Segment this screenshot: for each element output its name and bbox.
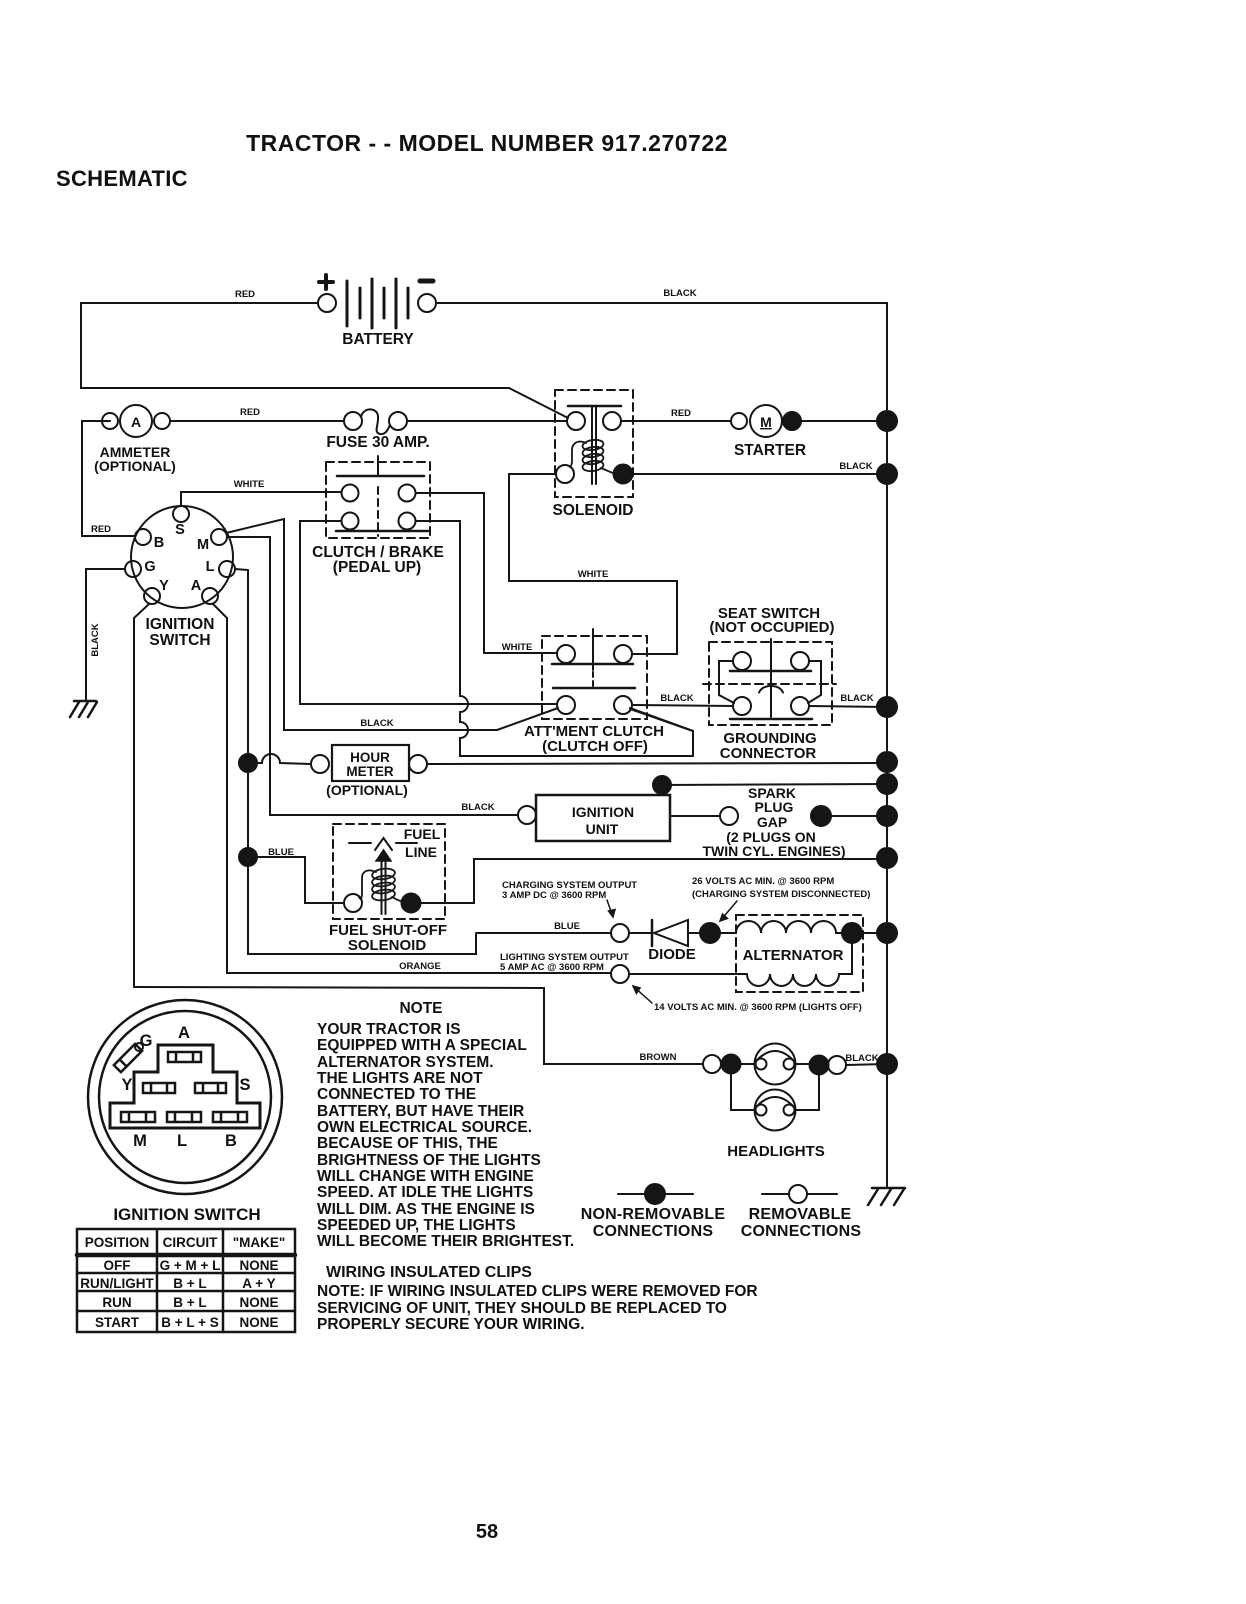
svg-text:IGNITION: IGNITION — [146, 616, 215, 633]
svg-text:BLACK: BLACK — [360, 718, 393, 729]
svg-text:BLACK: BLACK — [90, 623, 101, 656]
wire clutch lower-right with hops to banner — [416, 521, 693, 756]
svg-text:L: L — [177, 1132, 187, 1150]
ignition switch connector inner circle — [99, 1011, 271, 1183]
ignition switch terminal A — [202, 588, 218, 604]
svg-text:START: START — [95, 1315, 140, 1330]
fuse left terminal circle — [344, 412, 362, 430]
svg-text:WHITE: WHITE — [578, 569, 609, 580]
attm clutch dashed box — [542, 636, 647, 719]
hour meter box — [332, 745, 409, 781]
svg-text:EQUIPPED WITH A SPECIAL: EQUIPPED WITH A SPECIAL — [317, 1037, 527, 1054]
solenoid upper-left contact — [567, 412, 585, 430]
arrow charging label to circle — [607, 900, 615, 917]
solenoid coil right lead — [601, 468, 613, 473]
headlight lamp 2 branch wires — [731, 1074, 755, 1110]
ground symbol right — [868, 1188, 905, 1205]
junction dot rail solenoid — [877, 464, 897, 484]
spark plug gap left circle — [720, 807, 738, 825]
wire A terminal trunk orange — [213, 604, 611, 973]
clutch/brake lower-left contact — [342, 513, 359, 530]
svg-text:(CLUTCH OFF): (CLUTCH OFF) — [542, 738, 648, 755]
hour meter right terminal circle — [409, 755, 427, 773]
ignition unit box — [536, 795, 670, 841]
wire to lamp1 — [740, 1063, 755, 1065]
solenoid plunger double line — [591, 406, 593, 484]
svg-text:ALTERNATOR SYSTEM.: ALTERNATOR SYSTEM. — [317, 1054, 494, 1071]
label SPARK PLUG GAP (2 PLUGS ON TWIN CYL. ENGINES) — [702, 785, 845, 859]
svg-text:SOLENOID: SOLENOID — [348, 937, 427, 954]
svg-text:RED: RED — [91, 524, 111, 535]
ignition switch terminal S — [173, 506, 189, 522]
wire Y terminal trunk — [134, 604, 149, 987]
svg-text:NOTE: IF WIRING INSULATED CLIP: NOTE: IF WIRING INSULATED CLIPS WERE REM… — [317, 1283, 758, 1300]
svg-text:SWITCH: SWITCH — [149, 632, 210, 649]
wire starter to rail — [801, 420, 887, 422]
fuel solenoid left terminal circle — [344, 894, 362, 912]
wire S terminal white to clutch — [181, 492, 341, 506]
svg-text:WILL CHANGE WITH ENGINE: WILL CHANGE WITH ENGINE — [317, 1168, 534, 1185]
svg-text:UNIT: UNIT — [586, 821, 619, 837]
wire diode to alternator dot — [688, 932, 700, 934]
solenoid lower-left contact — [556, 465, 574, 483]
alternator dashed box — [736, 915, 863, 992]
seat switch lower-left contact — [733, 697, 751, 715]
wire blue to charging circle — [476, 932, 611, 934]
attm clutch lower bar — [553, 687, 635, 690]
junction dot rail alternator — [877, 923, 897, 943]
ignition switch terminal M — [211, 529, 227, 545]
svg-text:ALTERNATOR: ALTERNATOR — [743, 947, 844, 964]
wire headlight feed brown — [134, 987, 703, 1064]
wire clutch upper-right white down to attm clutch — [416, 493, 557, 653]
svg-text:RED: RED — [235, 289, 255, 300]
svg-text:BLACK: BLACK — [663, 288, 696, 299]
ammeter left terminal circle — [102, 413, 118, 429]
svg-text:A + Y: A + Y — [242, 1276, 275, 1291]
svg-text:THE LIGHTS ARE NOT: THE LIGHTS ARE NOT — [317, 1070, 483, 1087]
svg-text:WIRING INSULATED CLIPS: WIRING INSULATED CLIPS — [326, 1264, 532, 1281]
fuel solenoid right junction dot — [402, 894, 421, 913]
svg-text:HEADLIGHTS: HEADLIGHTS — [727, 1143, 825, 1160]
ammeter right terminal circle — [154, 413, 170, 429]
svg-text:TWIN CYL. ENGINES): TWIN CYL. ENGINES) — [702, 843, 845, 859]
table row OFF — [104, 1258, 279, 1273]
wire clutch lower-left loop to attm lower-left — [300, 521, 557, 704]
solenoid dashed box — [555, 390, 633, 497]
svg-text:BRIGHTNESS OF THE LIGHTS: BRIGHTNESS OF THE LIGHTS — [317, 1152, 541, 1169]
junction dot hour meter feed — [239, 754, 257, 772]
battery negative terminal circle — [418, 294, 436, 312]
spark plug gap right dot — [811, 806, 831, 826]
arrow 26 volts label to diode dot — [720, 901, 737, 921]
svg-text:BLACK: BLACK — [845, 1053, 878, 1064]
wire attm lower-right to seat switch — [632, 705, 733, 706]
svg-text:(CHARGING SYSTEM DISCONNECTED): (CHARGING SYSTEM DISCONNECTED) — [692, 889, 870, 900]
ignition switch terminal B — [135, 529, 151, 545]
svg-text:G + M + L: G + M + L — [160, 1258, 221, 1273]
junction dot rail starter — [877, 411, 897, 431]
connector pin letters — [121, 1024, 250, 1150]
legend removable connection — [762, 1185, 837, 1203]
wire ammeter to fuse — [170, 420, 344, 422]
svg-text:FUSE 30 AMP.: FUSE 30 AMP. — [326, 434, 429, 451]
svg-text:SOLENOID: SOLENOID — [553, 502, 634, 519]
seat switch right bracket wire — [808, 661, 821, 703]
right rail vertical wire — [886, 303, 888, 1188]
fuel solenoid coil right lead — [392, 897, 403, 902]
svg-text:BATTERY, BUT HAVE THEIR: BATTERY, BUT HAVE THEIR — [317, 1103, 524, 1120]
junction dot rail spark — [877, 806, 897, 826]
svg-text:NOTE: NOTE — [399, 1000, 442, 1017]
attm clutch upper contact bar — [552, 663, 633, 666]
svg-text:NONE: NONE — [239, 1315, 278, 1330]
ignition switch terminal L — [219, 561, 235, 577]
wire charging circle to diode — [629, 932, 652, 934]
svg-text:B: B — [225, 1132, 237, 1150]
ignition unit left terminal circle — [518, 806, 536, 824]
junction dot rail ignition top — [877, 774, 897, 794]
ignition switch terminal Y — [144, 588, 160, 604]
ammeter loop wire — [82, 421, 135, 536]
battery plus sign — [319, 275, 333, 289]
ignition switch terminal G — [125, 561, 141, 577]
svg-text:BLACK: BLACK — [660, 693, 693, 704]
svg-text:NON-REMOVABLE: NON-REMOVABLE — [581, 1206, 726, 1223]
svg-text:WILL BECOME THEIR BRIGHTEST.: WILL BECOME THEIR BRIGHTEST. — [317, 1233, 574, 1250]
seat switch upper-left contact — [733, 652, 751, 670]
attm clutch upper-right contact — [614, 645, 632, 663]
junction dot rail hour meter — [877, 752, 897, 772]
svg-text:SPEED. AT IDLE THE LIGHTS: SPEED. AT IDLE THE LIGHTS — [317, 1184, 533, 1201]
junction dot rail headlight — [877, 1054, 897, 1074]
wire spark plug to rail — [831, 815, 887, 817]
fuel line chevron arrow — [375, 838, 392, 850]
svg-text:WILL DIM. AS THE ENGINE IS: WILL DIM. AS THE ENGINE IS — [317, 1201, 535, 1218]
attm clutch actuator line — [592, 629, 594, 670]
svg-text:IGNITION: IGNITION — [572, 804, 634, 820]
headlight left removable circle — [703, 1055, 721, 1073]
table header POSITION CIRCUIT MAKE — [85, 1235, 286, 1250]
svg-text:58: 58 — [476, 1521, 498, 1543]
svg-text:BLUE: BLUE — [554, 921, 580, 932]
svg-text:LINE: LINE — [405, 844, 437, 860]
svg-text:B: B — [154, 535, 164, 551]
svg-text:(OPTIONAL): (OPTIONAL) — [326, 782, 408, 798]
svg-text:M: M — [133, 1132, 147, 1150]
solenoid lower-right junction dot — [614, 465, 633, 484]
wire B terminal red (joins ammeter loop) — [82, 535, 135, 537]
svg-text:FUEL: FUEL — [404, 826, 441, 842]
wire battery positive to left rail — [81, 303, 509, 388]
clutch/brake top bar — [337, 475, 424, 478]
svg-text:DIODE: DIODE — [648, 946, 696, 963]
headlight left junction dot — [722, 1055, 741, 1074]
fuel solenoid dashed box — [333, 824, 445, 919]
svg-text:RUN: RUN — [102, 1295, 131, 1310]
svg-text:BROWN: BROWN — [640, 1052, 677, 1063]
seat switch ground arc — [759, 686, 783, 693]
svg-text:SERVICING OF UNIT, THEY SHOULD: SERVICING OF UNIT, THEY SHOULD BE REPLAC… — [317, 1300, 727, 1317]
svg-text:PLUG: PLUG — [755, 799, 794, 815]
clutch/brake upper-left contact — [342, 485, 359, 502]
attm clutch upper-left contact — [557, 645, 575, 663]
svg-text:A: A — [131, 414, 141, 430]
svg-text:(NOT OCCUPIED): (NOT OCCUPIED) — [710, 619, 835, 636]
svg-text:STARTER: STARTER — [734, 442, 806, 459]
connector G pin slanted — [114, 1044, 142, 1072]
connector slot A — [168, 1052, 201, 1062]
svg-text:S: S — [239, 1076, 250, 1094]
fuel valve arrow head — [376, 850, 391, 861]
lighting output circle — [611, 965, 629, 983]
svg-text:26 VOLTS AC MIN. @ 3600 RPM: 26 VOLTS AC MIN. @ 3600 RPM — [692, 876, 834, 887]
svg-text:OWN ELECTRICAL SOURCE.: OWN ELECTRICAL SOURCE. — [317, 1119, 532, 1136]
wire lamp1 to right dot — [794, 1063, 809, 1065]
table row RUN/LIGHT — [80, 1276, 275, 1291]
svg-text:HOUR: HOUR — [350, 750, 390, 765]
wire diagonal up to attm clutch lower-left contact — [497, 708, 558, 730]
seat switch dashed box — [709, 642, 832, 725]
seat switch lower contact bar — [730, 718, 812, 721]
fuel valve stem double line — [381, 861, 383, 914]
wire alternator to rail — [862, 932, 887, 934]
svg-text:REMOVABLE: REMOVABLE — [749, 1206, 852, 1223]
wire G terminal to ground — [86, 569, 125, 701]
wire solenoid to starter — [621, 420, 731, 422]
ground symbol left — [70, 701, 97, 717]
diode D1 — [652, 920, 688, 946]
svg-text:M: M — [197, 537, 209, 553]
svg-text:GAP: GAP — [757, 814, 787, 830]
wire hour meter feed with hop — [248, 754, 311, 764]
ammeter meter circle A — [120, 405, 152, 437]
svg-text:(OPTIONAL): (OPTIONAL) — [94, 458, 176, 474]
svg-text:A: A — [178, 1024, 190, 1042]
svg-text:Y: Y — [121, 1076, 132, 1094]
attm clutch lower-right contact — [614, 696, 632, 714]
legend non-removable connection — [618, 1184, 693, 1204]
junction dot blue fuel feed — [239, 848, 257, 866]
connector slot S — [195, 1083, 226, 1093]
headlight right removable circle — [828, 1056, 846, 1074]
svg-text:G: G — [140, 1032, 153, 1050]
svg-text:RUN/LIGHT: RUN/LIGHT — [80, 1276, 154, 1291]
hour meter left terminal circle — [311, 755, 329, 773]
arrow 14 volts label to lighting circle — [633, 986, 652, 1003]
wire L terminal down — [235, 569, 476, 954]
svg-text:WHITE: WHITE — [502, 642, 533, 653]
wire solenoid lower-left down to white line — [509, 474, 677, 654]
wire ignition unit top to rail — [662, 784, 887, 795]
connector slot L — [167, 1112, 201, 1122]
svg-text:OFF: OFF — [104, 1258, 131, 1273]
junction dot diode output — [700, 923, 720, 943]
svg-text:5 AMP AC @ 3600 RPM: 5 AMP AC @ 3600 RPM — [500, 962, 604, 973]
wire hour meter to rail — [427, 763, 887, 764]
ignition switch pin letters — [144, 522, 214, 594]
seat switch actuator line — [770, 639, 772, 717]
wire seat switch to rail black — [809, 706, 887, 707]
connector stepped housing outline — [110, 1045, 260, 1128]
attm clutch actuator dashed segment — [592, 672, 594, 687]
connector slot B — [213, 1112, 247, 1122]
fuel solenoid coil — [371, 867, 395, 901]
svg-text:WHITE: WHITE — [234, 479, 265, 490]
alternator bottom winding — [629, 943, 852, 986]
connector slot Y — [143, 1083, 175, 1093]
clutch/brake dashed box — [326, 462, 430, 538]
starter right junction dot — [783, 412, 801, 430]
solenoid coil — [582, 439, 604, 473]
junction dot ignition unit top — [653, 776, 671, 794]
junction dot rail fuel — [877, 848, 897, 868]
seat switch dashed divider — [703, 683, 836, 685]
svg-text:METER: METER — [346, 764, 394, 779]
connector slot M — [121, 1112, 155, 1122]
wire battery negative to right rail — [436, 302, 887, 304]
ignition switch connector outer circle — [88, 1000, 282, 1194]
svg-text:CONNECTOR: CONNECTOR — [720, 745, 817, 762]
wire solenoid black to rail — [632, 473, 887, 475]
svg-text:3 AMP DC @ 3600 RPM: 3 AMP DC @ 3600 RPM — [502, 890, 606, 901]
svg-text:L: L — [206, 559, 215, 575]
seat switch upper-right contact — [791, 652, 809, 670]
ignition switch body circle — [131, 506, 233, 608]
svg-text:NONE: NONE — [239, 1295, 278, 1310]
fuse element squiggle — [361, 409, 390, 434]
svg-text:A: A — [191, 578, 202, 594]
wire diagonal into solenoid upper-left contact — [509, 388, 568, 418]
svg-text:B + L + S: B + L + S — [161, 1315, 219, 1330]
svg-text:POSITION: POSITION — [85, 1235, 150, 1250]
headlight right junction dot — [810, 1056, 829, 1075]
svg-text:CONNECTIONS: CONNECTIONS — [593, 1223, 714, 1240]
clutch/brake lower contact bar — [336, 530, 428, 533]
clutch/brake actuator tick — [377, 456, 379, 476]
wire M terminal diagonal to black attm line — [226, 519, 497, 730]
wire ignition unit to spark plug gap — [670, 815, 720, 817]
headlight lamp 2 — [755, 1090, 796, 1131]
solenoid T bar — [568, 405, 621, 408]
svg-text:Y: Y — [159, 578, 169, 594]
wire blue feed to fuel solenoid — [257, 857, 344, 903]
svg-text:CONNECTIONS: CONNECTIONS — [741, 1223, 862, 1240]
svg-text:BLACK: BLACK — [839, 461, 872, 472]
solenoid coil left lead — [570, 442, 586, 467]
solenoid upper-right contact — [603, 412, 621, 430]
alternator top winding — [720, 921, 843, 933]
starter motor circle M — [750, 405, 782, 437]
svg-text:RED: RED — [671, 408, 691, 419]
svg-text:YOUR TRACTOR IS: YOUR TRACTOR IS — [317, 1021, 461, 1038]
attm clutch lower-left contact — [557, 696, 575, 714]
connector G pin circle — [135, 1043, 143, 1051]
fuel solenoid coil left lead — [359, 870, 376, 898]
label LIGHTING SYSTEM OUTPUT 5 AMP AC — [500, 952, 629, 973]
svg-text:RED: RED — [240, 407, 260, 418]
fuse right terminal circle — [389, 412, 407, 430]
seat switch lower-right contact — [791, 697, 809, 715]
seat switch left bracket wire — [719, 661, 734, 703]
svg-text:IGNITION SWITCH: IGNITION SWITCH — [113, 1205, 260, 1224]
wire headlight to rail — [846, 1064, 887, 1065]
svg-text:BLACK: BLACK — [840, 693, 873, 704]
junction dot alternator right — [842, 923, 862, 943]
svg-text:PROPERLY SECURE YOUR WIRING.: PROPERLY SECURE YOUR WIRING. — [317, 1316, 585, 1333]
svg-text:BATTERY: BATTERY — [342, 331, 414, 348]
svg-text:M: M — [760, 414, 772, 430]
wire fuel solenoid loop to rail — [420, 859, 887, 903]
svg-text:S: S — [175, 522, 185, 538]
svg-text:14 VOLTS AC MIN. @ 3600 RPM (: 14 VOLTS AC MIN. @ 3600 RPM (LIGHTS OFF) — [654, 1002, 862, 1013]
svg-text:G: G — [144, 559, 155, 575]
clutch/brake lower-right contact — [399, 513, 416, 530]
svg-text:BECAUSE OF THIS, THE: BECAUSE OF THIS, THE — [317, 1135, 498, 1152]
clutch/brake center divider dashed — [377, 487, 379, 536]
battery minus sign — [420, 279, 433, 284]
label 26 VOLTS AC MIN (CHARGING SYSTEM DISCONNECTED) — [692, 876, 870, 900]
svg-text:B + L: B + L — [173, 1276, 206, 1291]
table row START — [95, 1315, 279, 1330]
wire fuse to solenoid — [407, 420, 567, 422]
svg-text:TRACTOR - - MODEL NUMBER 917.2: TRACTOR - - MODEL NUMBER 917.270722 — [246, 130, 728, 156]
svg-text:(PEDAL UP): (PEDAL UP) — [333, 559, 421, 576]
fuel line horizontal — [349, 842, 371, 844]
wire attm lower-right diagonal to banner — [630, 709, 693, 731]
junction dot rail seat — [877, 697, 897, 717]
battery positive terminal circle — [318, 294, 336, 312]
svg-text:NONE: NONE — [239, 1258, 278, 1273]
headlight lamp 1 — [755, 1044, 796, 1085]
note text block — [317, 1000, 574, 1250]
seat switch upper contact bar — [730, 670, 811, 673]
table row RUN — [102, 1295, 278, 1310]
svg-text:B + L: B + L — [173, 1295, 206, 1310]
note wiring insulated clips paragraph — [317, 1283, 758, 1333]
svg-text:ORANGE: ORANGE — [399, 961, 441, 972]
label CHARGING SYSTEM OUTPUT 3 AMP DC — [502, 880, 637, 901]
svg-text:"MAKE": "MAKE" — [233, 1235, 286, 1250]
svg-text:CIRCUIT: CIRCUIT — [163, 1235, 218, 1250]
battery plates — [347, 279, 408, 328]
svg-text:SCHEMATIC: SCHEMATIC — [56, 166, 188, 191]
svg-text:BLACK: BLACK — [461, 802, 494, 813]
charging output circle — [611, 924, 629, 942]
starter left terminal circle — [731, 413, 747, 429]
ignition switch table grid — [77, 1229, 295, 1332]
svg-text:SPEEDED UP, THE LIGHTS: SPEEDED UP, THE LIGHTS — [317, 1217, 516, 1234]
svg-text:CONNECTED TO THE: CONNECTED TO THE — [317, 1086, 476, 1103]
clutch/brake upper-right contact — [399, 485, 416, 502]
wire M terminal to ignition unit black — [227, 537, 518, 815]
